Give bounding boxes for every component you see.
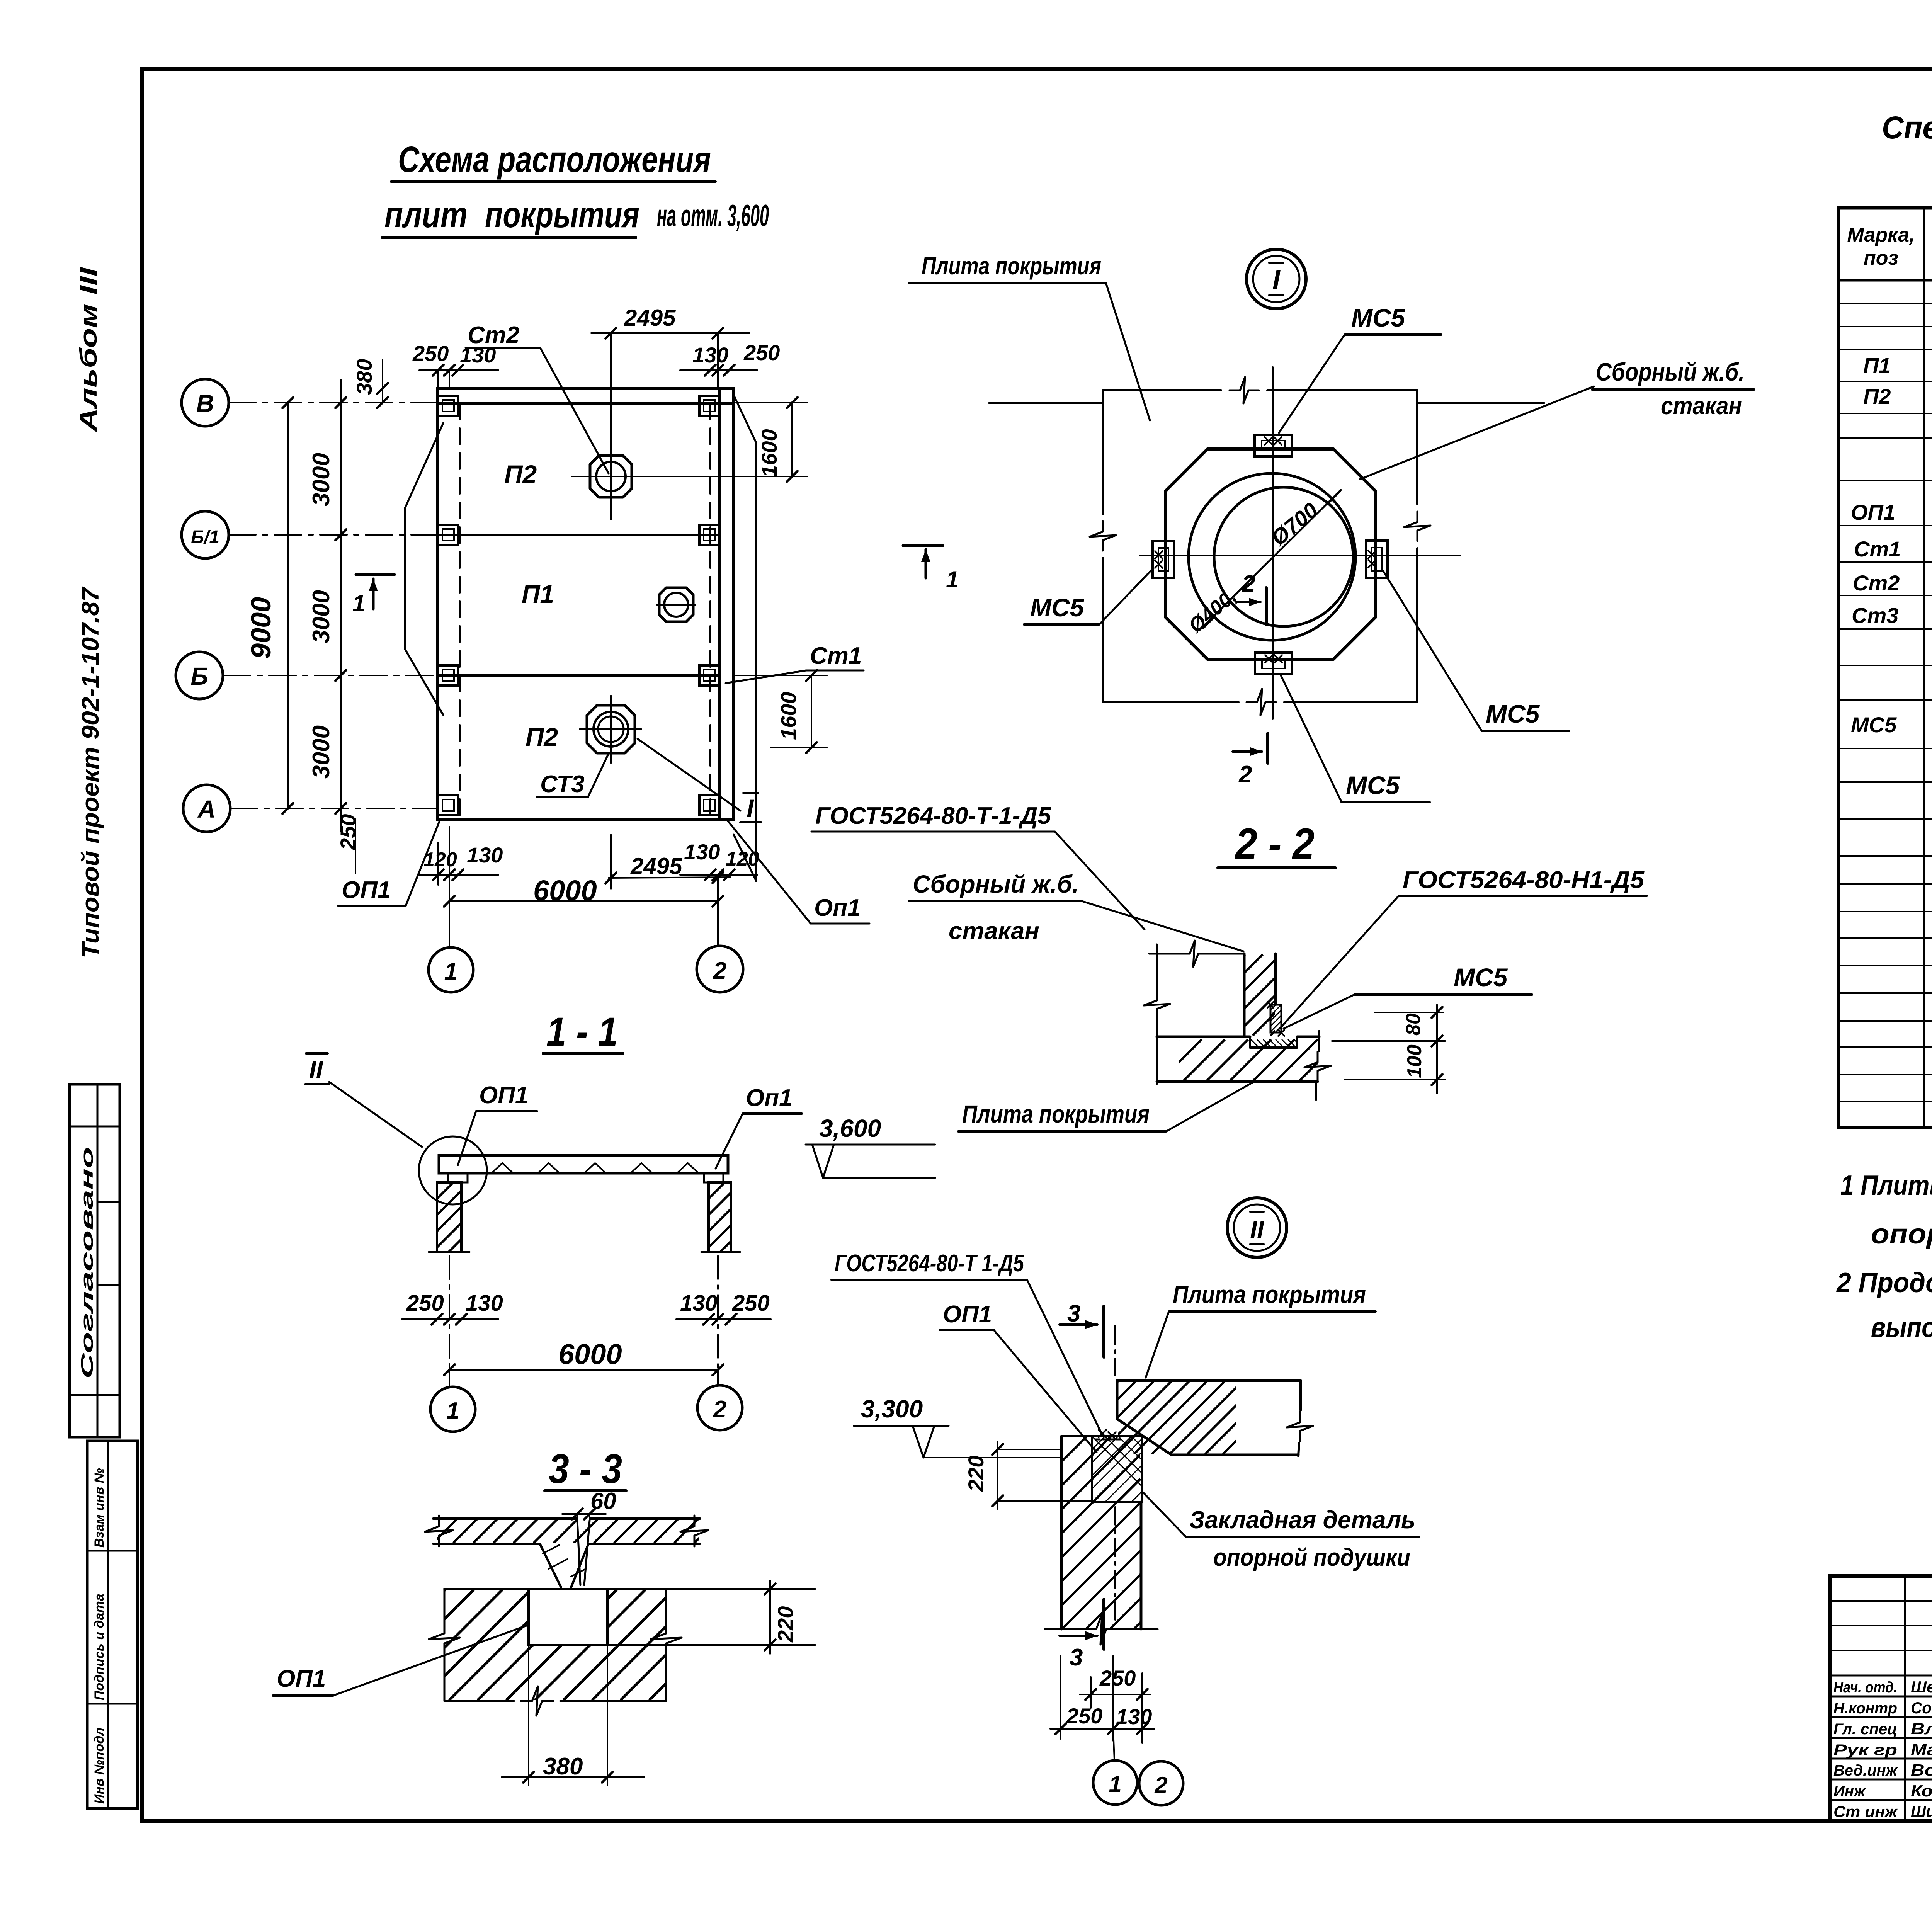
svg-text:6000: 6000	[558, 1338, 622, 1370]
svg-text:А: А	[197, 795, 216, 823]
detail I: label Плита покрытия with leader	[909, 252, 1150, 420]
detail II: section mark 3 top	[1060, 1300, 1104, 1357]
plan: bottom left label ОП1 with leader	[338, 822, 439, 906]
plan: section mark 1 right	[903, 546, 959, 592]
svg-text:Спецификация к схеме располо: Спецификация к схеме расположения	[1882, 110, 1932, 145]
svg-text:1: 1	[1109, 1771, 1121, 1797]
svg-text:Возианов: Возианов	[1911, 1761, 1932, 1779]
section 3-3: slab with rib	[413, 1516, 738, 1587]
plan: right dimension 1600 lower	[736, 670, 827, 753]
plan: stakan Ст1 octagon	[657, 588, 696, 622]
svg-text:1600: 1600	[776, 692, 801, 740]
svg-text:опорной подушки: опорной подушки	[1213, 1543, 1410, 1571]
svg-text:Ст инж: Ст инж	[1833, 1803, 1898, 1820]
svg-text:П2: П2	[1863, 384, 1891, 408]
plan: axis circle В	[182, 379, 229, 426]
section 2-2: MC5 vertical plate with weld	[1243, 1002, 1314, 1036]
section 2-2: label Сборный ж.б. стакан with leader	[909, 870, 1243, 951]
svg-text:Шейко: Шейко	[1911, 1678, 1932, 1696]
detail I: MC5 plate right	[1366, 541, 1388, 578]
svg-text:Н.контр: Н.контр	[1833, 1700, 1897, 1717]
plan: label Ст2 with leader	[466, 322, 609, 473]
svg-text:Вед.инж: Вед.инж	[1833, 1762, 1898, 1779]
plan: support pads ОП1 on right wall	[699, 396, 719, 815]
svg-text:250: 250	[336, 814, 360, 850]
plan: top dimension 2495	[591, 305, 750, 437]
svg-text:П2: П2	[526, 723, 558, 751]
detail I: label МС5 top with leader	[1279, 303, 1441, 433]
svg-text:МС5: МС5	[1851, 713, 1897, 737]
svg-text:ОП1: ОП1	[277, 1665, 326, 1692]
svg-text:I: I	[747, 794, 754, 823]
plan: label ГОСТ5264-80-Т-1-Д5 with leader	[811, 803, 1145, 929]
section 3-3: dimension 380	[502, 1645, 645, 1785]
svg-text:1600: 1600	[757, 429, 781, 477]
plan: right fold of slab edge	[734, 395, 756, 881]
main title line 2: плит покрытия на отм. 3,600	[383, 194, 769, 238]
notes line 3	[1836, 1267, 1932, 1298]
svg-text:220: 220	[773, 1606, 798, 1643]
svg-text:Плита покрытия: Плита покрытия	[922, 252, 1101, 280]
plan: axis line А	[230, 808, 438, 809]
svg-text:2: 2	[1242, 571, 1255, 597]
left sidebar upper table (Согласовано)	[70, 1084, 120, 1437]
detail I: label МС5 right with leader	[1383, 571, 1569, 731]
svg-text:Согласовано: Согласовано	[78, 1147, 97, 1379]
svg-text:Марка,: Марка,	[1847, 224, 1915, 246]
plan: plate label П2 top	[504, 460, 537, 488]
svg-text:П1: П1	[522, 580, 554, 608]
svg-text:Мазалова: Мазалова	[1911, 1740, 1932, 1759]
svg-text:МС5: МС5	[1454, 963, 1508, 992]
svg-text:130: 130	[466, 1291, 503, 1316]
svg-text:130: 130	[467, 843, 503, 867]
svg-text:Гл. спец: Гл. спец	[1833, 1721, 1897, 1738]
svg-text:2495: 2495	[624, 305, 676, 331]
plan: right dimension 1600 upper	[634, 397, 808, 482]
specification heading line 1	[1882, 110, 1932, 145]
section 2-2: label Плита покрытия with leader	[958, 1082, 1253, 1131]
svg-text:Плита покрытия: Плита покрытия	[962, 1100, 1150, 1128]
svg-text:1: 1	[446, 1398, 459, 1424]
svg-text:3000: 3000	[308, 590, 335, 643]
svg-text:Б/1: Б/1	[191, 527, 219, 548]
svg-text:Взам инв №: Взам инв №	[92, 1468, 107, 1548]
table row ОП1	[1851, 500, 1932, 524]
section 3-3: label ОП1 with leader	[273, 1625, 529, 1696]
plan: axis circle Б	[176, 652, 223, 699]
svg-text:ОП1: ОП1	[1851, 500, 1895, 524]
detail I: label МС5 bottom with leader	[1281, 675, 1430, 802]
svg-text:100: 100	[1403, 1044, 1426, 1078]
specification table grid	[1838, 208, 1932, 1128]
detail I: MC5 plate bottom	[1255, 653, 1292, 674]
plan: slab joint line at Б	[438, 674, 719, 677]
plan: label Ст1 with leader	[726, 643, 864, 683]
detail II: label Закладная деталь опорной подушки with leader	[1143, 1492, 1419, 1571]
detail II: bottom dimensions 250 250 130	[1050, 1656, 1155, 1743]
section 3-3: pad ОП1 embedded	[529, 1589, 607, 1645]
svg-text:2: 2	[1238, 761, 1252, 788]
detail I: centerlines	[1140, 367, 1461, 719]
svg-text:П1: П1	[1863, 353, 1891, 378]
detail I: MC5 plate left	[1153, 541, 1174, 578]
svg-text:опорной подушки не менее: опорной подушки не менее чем в трех точк…	[1871, 1219, 1932, 1250]
plan: label СТ3 with leader	[537, 754, 609, 798]
svg-text:Оп1: Оп1	[814, 895, 861, 921]
svg-text:1 Плиты покрытия приварить: 1 Плиты покрытия приварить к закладным и…	[1840, 1170, 1932, 1201]
detail I: slab plate square with break lines	[989, 377, 1544, 715]
svg-text:250: 250	[1066, 1704, 1102, 1728]
table row Ст3	[1852, 603, 1932, 630]
detail I: circle Ø400	[1214, 487, 1353, 626]
main title: Схема расположения	[391, 139, 716, 182]
plan: left fold of slab edge	[405, 423, 443, 715]
detail I: label Сборный ж.б. стакан with leader	[1360, 357, 1754, 479]
svg-text:250: 250	[743, 340, 780, 365]
svg-text:Оп1: Оп1	[746, 1085, 793, 1111]
plan: plate label П1 middle	[522, 580, 554, 608]
section 1-1: axis circle 2	[697, 1370, 742, 1430]
svg-text:2 - 2: 2 - 2	[1235, 820, 1315, 868]
table row П2	[1863, 384, 1932, 411]
plan: bottom dimension 6000	[444, 874, 723, 907]
plan: top dimension 130 250 right	[680, 340, 780, 376]
section 1-1: pad under left end	[448, 1173, 468, 1182]
specification table header texts	[1847, 224, 1932, 270]
svg-text:поз: поз	[1864, 247, 1898, 269]
svg-text:Б: Б	[190, 662, 208, 690]
detail I: callout circle	[1247, 249, 1306, 309]
plan: slab joint line at Б/1	[438, 534, 719, 536]
plan: plate label П2 bottom	[526, 723, 558, 751]
svg-text:130: 130	[684, 840, 720, 864]
margin text: Альбом III	[75, 267, 102, 433]
svg-text:2495: 2495	[630, 853, 683, 879]
svg-text:9000: 9000	[246, 597, 277, 659]
detail II: slab cross-section	[1045, 1325, 1313, 1456]
svg-text:Закладная деталь: Закладная деталь	[1189, 1506, 1415, 1534]
svg-text:250: 250	[412, 341, 449, 366]
svg-text:выполнить по серии 1 465.: выполнить по серии 1 465.1 - 10/82. О - …	[1871, 1312, 1932, 1343]
detail II: weld at slab bearing	[1096, 1430, 1121, 1440]
svg-text:ГОСТ5264-80-Н1-Д5: ГОСТ5264-80-Н1-Д5	[1403, 867, 1645, 893]
plan: stakan Ст2 octagon	[572, 437, 649, 520]
svg-text:Схема расположения: Схема расположения	[398, 139, 711, 180]
plan: axis line Б	[223, 675, 438, 676]
detail II: dimension 220	[964, 1442, 1092, 1509]
svg-text:Инж: Инж	[1833, 1783, 1866, 1800]
table row Ст1	[1854, 537, 1932, 562]
section 2-2: label ГОСТ5264-80-Н1-Д5 with leader	[1280, 867, 1647, 1029]
section 1-1: left wall	[367, 1182, 534, 1252]
plan: dimension column 9000	[246, 397, 293, 814]
svg-text:80: 80	[1402, 1013, 1425, 1036]
notes line 4	[1871, 1312, 1932, 1343]
plan: top dimension 380	[352, 359, 388, 408]
svg-text:Власенко: Власенко	[1911, 1720, 1932, 1738]
svg-text:250: 250	[406, 1291, 444, 1316]
detail II: label Плита покрытия with leader	[1146, 1281, 1376, 1378]
section 1-1: pad under right end	[704, 1173, 723, 1182]
svg-text:250: 250	[732, 1291, 770, 1316]
svg-text:3,600: 3,600	[819, 1114, 881, 1142]
svg-text:Корнюкин: Корнюкин	[1911, 1782, 1932, 1800]
table row П1	[1863, 350, 1932, 383]
plan: axis circle А	[183, 785, 230, 832]
plan: wall face dashed lines	[460, 403, 710, 819]
plan: bottom dimension 130 120 right	[680, 840, 759, 880]
title block outer box	[1830, 1576, 1932, 1821]
plan: axis 1 extension and circle	[429, 901, 473, 992]
section 1-1: detail II callout circle on slab end	[419, 1136, 487, 1204]
notes line 2	[1871, 1219, 1932, 1250]
section 2-2: title	[1218, 820, 1335, 868]
plan: bottom dimension 2495	[605, 835, 730, 889]
svg-text:1: 1	[352, 590, 365, 616]
detail II: section mark 3 bottom	[1060, 1599, 1104, 1671]
plan: dimension column 3000x3	[308, 379, 346, 832]
plan: section mark 1 left	[352, 575, 395, 616]
svg-text:130: 130	[680, 1291, 718, 1316]
table row МС5 with Полоса fraction	[1851, 710, 1932, 748]
detail I: section mark 2 lower	[1233, 733, 1268, 788]
svg-text:3: 3	[1067, 1300, 1080, 1327]
svg-text:на отм. 3,600: на отм. 3,600	[657, 198, 769, 233]
svg-text:1: 1	[946, 566, 959, 592]
detail I: octagon opening	[1165, 449, 1376, 659]
plan: support pads ОП1 on left wall	[438, 396, 458, 815]
plan: slab outline	[438, 388, 734, 819]
svg-text:П2: П2	[504, 460, 537, 488]
detail I: MC5 plate top	[1255, 435, 1292, 456]
svg-text:Альбом III: Альбом III	[75, 267, 102, 433]
svg-text:ОП1: ОП1	[479, 1082, 528, 1109]
svg-text:Инв №подл: Инв №подл	[92, 1727, 107, 1804]
svg-text:3000: 3000	[308, 725, 335, 779]
detail II: pad ОП1 cross-hatched	[1026, 1436, 1276, 1502]
svg-text:стакан: стакан	[1661, 392, 1742, 420]
svg-text:II: II	[1250, 1216, 1264, 1243]
plan: stakan СТ3 octagon	[580, 696, 641, 763]
svg-text:Ст1: Ст1	[1854, 537, 1901, 561]
svg-text:380: 380	[543, 1753, 583, 1780]
detail II: axis circles 1 and 2	[1093, 1729, 1183, 1805]
svg-text:Плита покрытия: Плита покрытия	[1173, 1281, 1366, 1308]
section 1-1: title	[543, 1009, 623, 1055]
svg-text:покрытия: покрытия	[485, 194, 639, 235]
svg-text:Подпись и дата: Подпись и дата	[92, 1594, 107, 1700]
svg-text:СТ3: СТ3	[540, 771, 585, 798]
detail I: diagonal dimension Ø400, Ø700	[1184, 490, 1341, 637]
svg-text:2: 2	[713, 1396, 726, 1423]
detail II: level mark 3,300	[854, 1395, 1061, 1458]
svg-text:120: 120	[423, 849, 457, 871]
detail I: circle Ø700	[1189, 473, 1355, 640]
svg-text:2: 2	[713, 958, 726, 984]
svg-text:120: 120	[726, 848, 759, 870]
svg-text:I: I	[1272, 264, 1281, 295]
section 3-3: base ground with hatch	[335, 1589, 788, 1716]
section 1-1: level mark 3,600	[806, 1114, 935, 1178]
svg-text:МС5: МС5	[1346, 771, 1400, 799]
svg-text:ОП1: ОП1	[342, 877, 391, 903]
svg-text:3,300: 3,300	[861, 1395, 923, 1423]
svg-text:Сборный ж.б.: Сборный ж.б.	[913, 870, 1079, 898]
title block left grid	[1830, 1576, 1932, 1821]
svg-text:ОП1: ОП1	[943, 1301, 992, 1328]
section 2-2: slab under stakan	[1137, 944, 1364, 1100]
svg-text:МС5: МС5	[1351, 303, 1406, 332]
svg-text:Нач. отд.: Нач. отд.	[1833, 1679, 1897, 1696]
svg-text:3: 3	[1070, 1644, 1083, 1671]
svg-text:2 Продольный стык между: 2 Продольный стык между комплексными пли…	[1836, 1267, 1932, 1298]
detail I: label МС5 left with leader	[1024, 568, 1153, 624]
svg-text:ГОСТ5264-80-Т-1-Д5: ГОСТ5264-80-Т-1-Д5	[815, 803, 1052, 829]
notes line 1	[1840, 1170, 1932, 1201]
svg-text:Ст1: Ст1	[810, 643, 862, 669]
svg-text:Рук гр: Рук гр	[1833, 1742, 1897, 1759]
section 1-1: right wall	[639, 1182, 806, 1252]
svg-text:ГОСТ5264-80-Т 1-Д5: ГОСТ5264-80-Т 1-Д5	[835, 1250, 1024, 1277]
title block signature rows	[1833, 1678, 1932, 1820]
margin text: Типовой проект 902-1-107.87	[77, 586, 104, 958]
plan: detail I flag with leader	[638, 739, 761, 823]
section 3-3: dimension 220	[607, 1580, 815, 1654]
svg-text:3000: 3000	[308, 453, 335, 506]
section 1-1: axis lines down to circles	[449, 1256, 718, 1387]
table row Ст2	[1853, 571, 1932, 596]
svg-text:380: 380	[352, 359, 376, 395]
section 2-2: label МС5 with leader	[1284, 963, 1532, 1029]
svg-text:1 - 1: 1 - 1	[546, 1009, 618, 1055]
svg-text:1: 1	[444, 958, 457, 985]
section 1-1: label ОП1 left with leader	[458, 1082, 537, 1165]
svg-text:2: 2	[1154, 1772, 1167, 1798]
svg-text:130: 130	[460, 343, 496, 367]
section 3-3: dimension 60	[562, 1488, 616, 1521]
plan: bottom dimension 120 130 left	[419, 827, 503, 900]
section 2-2: dimensions 80 100	[1332, 1005, 1445, 1094]
svg-text:Сокольская: Сокольская	[1911, 1699, 1932, 1717]
detail I: section mark 2 upper	[1236, 571, 1266, 625]
svg-text:Ст3: Ст3	[1852, 603, 1898, 628]
svg-text:В: В	[196, 390, 214, 417]
plan: axis line В	[229, 402, 438, 403]
plan: axis circle Б/1	[182, 511, 229, 558]
svg-text:Ст2: Ст2	[1853, 571, 1900, 595]
plan: axis line Б/1	[229, 534, 438, 536]
svg-text:стакан: стакан	[949, 918, 1039, 944]
section 3-3: title	[545, 1445, 626, 1492]
section 1-1: dimension 6000	[444, 1338, 723, 1375]
section 1-1: label Оп1 right with leader	[716, 1085, 802, 1169]
svg-text:Типовой проект 902-1-107.87: Типовой проект 902-1-107.87	[77, 586, 104, 958]
svg-text:МС5: МС5	[1030, 593, 1085, 622]
svg-text:130: 130	[692, 343, 728, 367]
detail II: label ГОСТ5264-80-Т 1-Д5 with leader	[832, 1250, 1102, 1434]
detail II: label ОП1 with leader	[940, 1301, 1097, 1452]
plan: bottom dimension 250 left	[336, 814, 360, 873]
section 1-1: axis circle 1	[430, 1370, 475, 1432]
section 1-1: dimension 250 130 left	[402, 1291, 503, 1325]
svg-text:плит: плит	[384, 194, 468, 235]
svg-text:МС5: МС5	[1486, 699, 1540, 728]
section 2-2: stakan wall cross-section	[1149, 941, 1369, 1037]
plan: bottom right label Оп1 with leader	[726, 819, 869, 924]
svg-text:Сборный ж.б.: Сборный ж.б.	[1596, 357, 1745, 386]
svg-text:3 - 3: 3 - 3	[549, 1445, 622, 1492]
plan: axis 2 extension and circle	[697, 878, 743, 992]
svg-text:Шильмовер: Шильмовер	[1911, 1802, 1932, 1820]
detail II: wall cross-section	[871, 1436, 1350, 1645]
section 1-1: slab	[439, 1155, 728, 1173]
detail II: callout circle	[1227, 1198, 1287, 1257]
section 1-1: dimension 130 250 right	[676, 1291, 771, 1325]
svg-text:220: 220	[964, 1456, 988, 1492]
section 1-1: detail II flag with leader	[305, 1053, 422, 1147]
left sidebar lower table (Взам инв № / Подпись и дата / Инв № подл)	[87, 1441, 138, 1808]
svg-text:250: 250	[1099, 1666, 1136, 1690]
plan: top dimension 250 130 left	[412, 341, 498, 390]
svg-text:II: II	[309, 1056, 323, 1084]
